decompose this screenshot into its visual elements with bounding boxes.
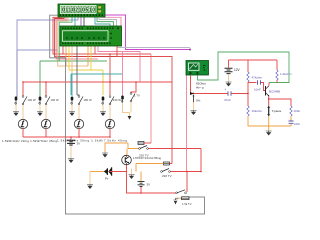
lamp L4: [105, 119, 114, 137]
wire left nest from display U1 to LCD: [53, 17, 117, 66]
svg-text:230 W: 230 W: [113, 98, 121, 102]
svg-text:230 TV: 230 TV: [162, 174, 172, 178]
ground mid: [129, 175, 135, 179]
switch S9 column G pushbutton: [121, 95, 129, 113]
ground C: [37, 112, 43, 116]
svg-text:12V: 12V: [234, 68, 241, 72]
svg-text:100uF: 100uF: [294, 122, 300, 126]
svg-text:100o: 100o: [294, 109, 301, 113]
switch S1 column A pushbutton: [15, 50, 18, 111]
svg-text:T-piece: T-piece: [272, 109, 282, 113]
svg-text:1.5T/15V 3.04 Hz 95mg: 1.5T/15V 3.04 Hz 95mg: [133, 156, 161, 160]
wire orange bottom rail: [248, 125, 291, 127]
wire right nest from display U1 to LCD: [95, 15, 126, 50]
svg-text:100 W: 100 W: [28, 98, 36, 102]
ground S13: [174, 198, 179, 204]
switch S7 column E pushbutton: [102, 96, 105, 111]
ground right: [266, 131, 272, 135]
lamp L1: [18, 119, 27, 137]
resistor R4 100: [290, 106, 301, 121]
svg-text:1.2kohm: 1.2kohm: [280, 72, 292, 76]
svg-text:BC548B: BC548B: [269, 90, 280, 94]
svg-text:0%: 0%: [196, 99, 201, 103]
ground under wire 105: [102, 153, 108, 157]
speaker LS1: [87, 167, 127, 188]
potentiometer VR1: [190, 92, 201, 115]
svg-text:100 W: 100 W: [51, 98, 59, 102]
switch S11: [105, 143, 201, 172]
wire collector node: [268, 83, 270, 86]
switch S3 column C pushbutton: [39, 96, 42, 111]
svg-text:+: +: [225, 88, 227, 92]
switch S5 column 2a pushbutton: [71, 74, 74, 111]
scope module SC1: [186, 61, 209, 76]
transistor Q2 BC548B: [266, 86, 281, 97]
wire bundle under LCD: [40, 46, 172, 164]
ground 2a: [69, 112, 75, 116]
svg-text:47kohm: 47kohm: [252, 76, 263, 80]
wire gray stub to right: [117, 47, 191, 49]
ground E: [100, 112, 106, 116]
switch S12: [161, 169, 201, 179]
wire blue loop left: [17, 17, 78, 97]
transistor Q1: [122, 149, 176, 194]
svg-text:47uF: 47uF: [224, 98, 231, 102]
svg-text:1 TV: 1 TV: [134, 94, 140, 98]
capacitor C2 10nF: [248, 80, 265, 91]
fuse F2: [136, 162, 172, 172]
resistor R3 10k: [247, 106, 263, 126]
fuse F3 bottom right: [178, 197, 192, 206]
svg-text:1.5kW/1kHz 23mg 1.5kW/7kHz 35m: 1.5kW/1kHz 23mg 1.5kW/7kHz 35mg: [2, 139, 57, 143]
wire gray frame loop: [50, 15, 205, 214]
switch S6 with lamp: [77, 95, 92, 119]
current arrow GH: [129, 113, 131, 117]
wire red bus upper: [23, 81, 172, 83]
battery B2 3V: [138, 172, 151, 194]
svg-text:1.5k TV: 1.5k TV: [182, 202, 192, 206]
wire scope left pin down: [190, 76, 192, 94]
wire pink vertical below scope: [186, 76, 188, 172]
wire emitter down: [268, 97, 270, 107]
switch S10 column H: [130, 82, 140, 113]
display module U1: [58, 4, 105, 17]
wire red bus lower: [23, 136, 110, 138]
thermistor TH1: [267, 106, 281, 126]
svg-text:Hz~ p: Hz~ p: [196, 86, 204, 90]
switch S8 column F: [109, 96, 121, 120]
wire scope right pin green loop: [198, 52, 290, 83]
capacitor C3 100uF: [289, 121, 303, 126]
resistor R1 47k: [247, 60, 263, 106]
wire red rail right top: [229, 59, 278, 61]
lamp L3: [74, 119, 83, 137]
battery B3 12V: [225, 60, 241, 86]
resistor R2 1.2k: [276, 60, 292, 83]
svg-text:3V: 3V: [77, 142, 81, 146]
LCD module LCD1: [60, 26, 122, 46]
svg-text:3V: 3V: [147, 183, 151, 187]
wire magenta stub to right: [125, 49, 190, 51]
svg-text:10kohm: 10kohm: [252, 109, 263, 113]
svg-text:0110210510: 0110210510: [62, 8, 95, 14]
switch S2 column B: [22, 96, 36, 120]
ground A: [13, 112, 19, 116]
switch S4 column D: [45, 96, 59, 120]
switch S13: [176, 190, 187, 194]
svg-text:10nF: 10nF: [254, 88, 261, 92]
fuse F1: [138, 142, 151, 145]
wire red right vertical: [186, 172, 188, 193]
capacitor C1 47uF: [194, 88, 249, 102]
lamp L2: [41, 119, 50, 137]
svg-text:180 W: 180 W: [84, 98, 92, 102]
battery B1 3V: [67, 137, 80, 163]
